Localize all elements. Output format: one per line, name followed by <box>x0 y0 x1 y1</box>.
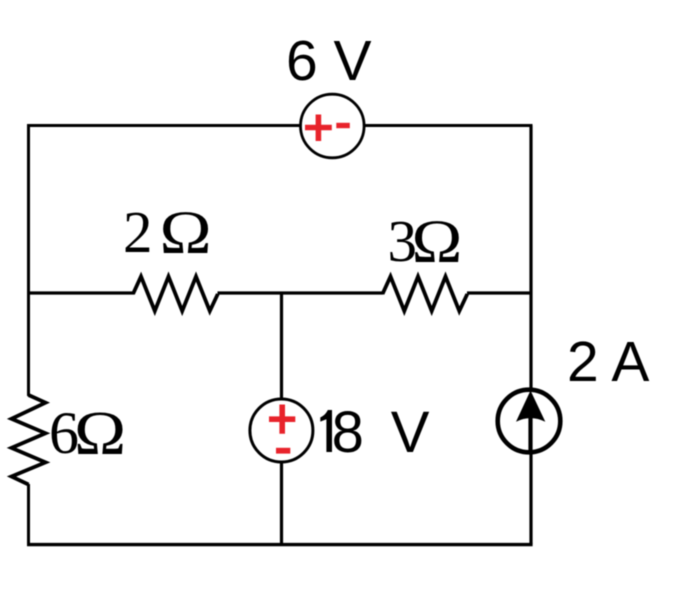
resistor 6ohm <box>12 395 46 485</box>
wire middle horizontal left <box>29 291 135 294</box>
wire middle horizontal right <box>467 291 531 294</box>
svg-text:8: 8 <box>332 400 364 465</box>
wire top-left segment <box>29 126 301 128</box>
wire bottom <box>27 543 533 546</box>
wire top-right segment <box>364 126 532 128</box>
svg-text:V: V <box>391 400 430 465</box>
V1 plus sign <box>305 115 332 142</box>
V1 minus sign <box>336 123 350 128</box>
current source I1 2A <box>498 390 561 453</box>
svg-text:2 A: 2 A <box>567 330 649 394</box>
resistor 2ohm <box>133 277 218 312</box>
voltage source V2 18V <box>250 399 313 462</box>
wire middle vertical lower <box>280 461 283 544</box>
I1 arrow head <box>516 391 545 422</box>
I1 arrow stem <box>528 414 532 452</box>
label 18V digit 1 <box>320 410 332 452</box>
wire left vertical lower <box>27 484 30 544</box>
wire right vertical upper <box>529 126 532 391</box>
wire middle vertical upper <box>280 293 283 401</box>
wire right vertical lower <box>529 452 532 545</box>
wire left vertical upper <box>27 126 30 397</box>
svg-text:2: 2 <box>123 199 153 265</box>
resistor 3ohm <box>383 277 468 312</box>
svg-text:Ω: Ω <box>160 199 212 267</box>
svg-text:Ω: Ω <box>412 208 463 276</box>
svg-text:Ω: Ω <box>74 399 126 468</box>
V2 plus sign <box>269 405 295 434</box>
wire middle horizontal center <box>218 291 384 294</box>
voltage source V1 6V <box>301 94 365 158</box>
V2 minus sign <box>276 448 290 454</box>
svg-text:6 V: 6 V <box>286 29 372 93</box>
